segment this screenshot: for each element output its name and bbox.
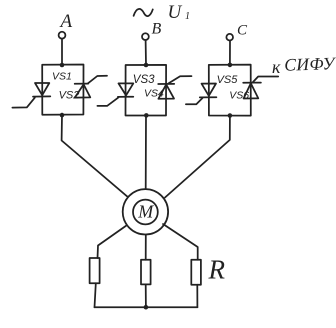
svg-text:VS4: VS4 <box>144 87 164 99</box>
wire phase A <box>61 39 63 65</box>
terminal A circle <box>59 32 66 39</box>
terminal B circle <box>142 33 149 40</box>
svg-text:VS2: VS2 <box>59 90 80 102</box>
node: junction dot box2 top <box>144 63 149 68</box>
svg-text:U: U <box>168 2 183 23</box>
motor M outer circle <box>123 189 168 234</box>
node: junction dot box3 top <box>228 63 233 68</box>
node: junction dot bottom bus <box>144 305 149 310</box>
thyristor VS6 <box>243 77 278 99</box>
resistor R (phase 2) <box>141 260 151 285</box>
node: junction dot box3 bottom <box>228 113 233 118</box>
ac source tilde <box>134 9 153 16</box>
wire bottom bus <box>95 306 198 308</box>
svg-text:1: 1 <box>185 11 190 22</box>
svg-text:VS5: VS5 <box>217 74 239 86</box>
node: junction dot box1 bottom <box>60 113 65 118</box>
thyristor module box 2 <box>126 65 167 116</box>
wire box3 to motor <box>165 116 230 198</box>
thyristor module box 3 <box>209 65 251 116</box>
thyristor VS3 <box>97 83 133 106</box>
wire phase B <box>145 40 147 65</box>
wire resistor1 down <box>95 283 96 307</box>
wire motor to resistor 2 <box>145 235 147 260</box>
wire motor to resistor 1 <box>98 225 127 258</box>
svg-text:R: R <box>208 255 226 285</box>
thyristor module box 1 <box>42 65 83 115</box>
svg-text:A: A <box>59 11 73 32</box>
resistor R (phase 1) <box>90 258 100 283</box>
wire phase C <box>229 41 231 65</box>
wire resistor3 down <box>196 285 198 308</box>
node: junction dot box2 bottom <box>144 113 149 118</box>
resistor R (phase 3) <box>191 260 201 285</box>
node: junction dot box1 top <box>60 63 65 68</box>
motor M inner circle <box>133 200 158 225</box>
wire box1 to motor <box>62 115 128 197</box>
svg-text:VS6: VS6 <box>229 89 249 101</box>
thyristor VS2 <box>75 76 107 98</box>
svg-text:VS3: VS3 <box>133 74 155 86</box>
thyristor VS4 <box>158 76 191 99</box>
svg-text:C: C <box>237 23 248 39</box>
terminal C circle <box>226 34 233 41</box>
svg-text:B: B <box>152 21 162 38</box>
thyristor VS1 <box>12 83 50 108</box>
wire box2 to motor <box>145 116 147 190</box>
svg-text:M: M <box>137 202 154 222</box>
wire resistor2 down <box>145 284 147 307</box>
thyristor VS5 <box>186 84 217 105</box>
svg-text:к: к <box>272 57 281 77</box>
svg-text:СИФУ: СИФУ <box>284 53 336 75</box>
wire motor to resistor 3 <box>163 224 198 260</box>
svg-text:VS1: VS1 <box>52 71 72 83</box>
